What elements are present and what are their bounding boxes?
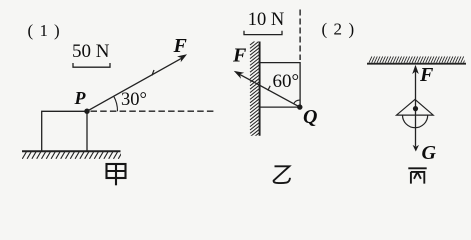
svg-text:Q: Q (303, 106, 317, 128)
label yi (CJK) (274, 166, 290, 183)
arrowhead G down (bing) (413, 145, 419, 152)
label jia (CJK) (107, 164, 126, 185)
svg-text:): ) (349, 20, 355, 39)
dashed vertical reference line (299, 10, 301, 61)
bracket rectangle on wall (260, 63, 301, 108)
scale bracket 10N (244, 31, 282, 35)
wall hatching (250, 38, 259, 144)
svg-text:G: G (422, 142, 437, 164)
svg-text:60°: 60° (273, 71, 300, 92)
box on ground (42, 111, 87, 151)
tick on F vector (yi) (268, 86, 270, 91)
angle arc 30deg (114, 96, 118, 111)
node Q dot (297, 104, 302, 109)
svg-text:50 N: 50 N (72, 41, 110, 62)
hanging object semicircle (403, 115, 428, 128)
force F line (yi) (237, 73, 300, 107)
arrowhead F up (bing) (412, 65, 419, 74)
ceiling line (367, 63, 466, 65)
svg-text:1: 1 (40, 21, 49, 40)
angle arc 60deg (294, 100, 300, 104)
wall edge (259, 42, 261, 136)
svg-text:2: 2 (334, 20, 343, 39)
svg-text:(: ( (28, 21, 34, 40)
svg-text:P: P (74, 88, 87, 108)
ground line (22, 150, 121, 152)
svg-text:): ) (54, 21, 60, 40)
dashed horizontal reference line (91, 110, 217, 112)
svg-text:F: F (232, 44, 247, 66)
force F vertical line (bing) (415, 70, 417, 147)
label (2) (322, 20, 355, 39)
center of gravity dot (413, 106, 418, 111)
ceiling hatching (369, 56, 466, 62)
svg-text:10 N: 10 N (248, 10, 284, 30)
svg-text:F: F (173, 35, 188, 57)
label (1) (28, 21, 60, 40)
label bing (CJK) (408, 168, 426, 183)
arrowhead F (jia) (177, 54, 187, 62)
hanging object triangle (397, 99, 434, 115)
force F line (jia) (87, 57, 184, 111)
scale bracket 50N (73, 63, 110, 67)
ground hatching (22, 152, 122, 159)
svg-text:F: F (419, 64, 434, 86)
svg-text:30°: 30° (121, 90, 147, 110)
arrowhead F (yi) (234, 71, 244, 79)
node P dot (84, 109, 89, 114)
svg-text:(: ( (322, 20, 328, 39)
tick on F vector (jia) (152, 70, 154, 76)
